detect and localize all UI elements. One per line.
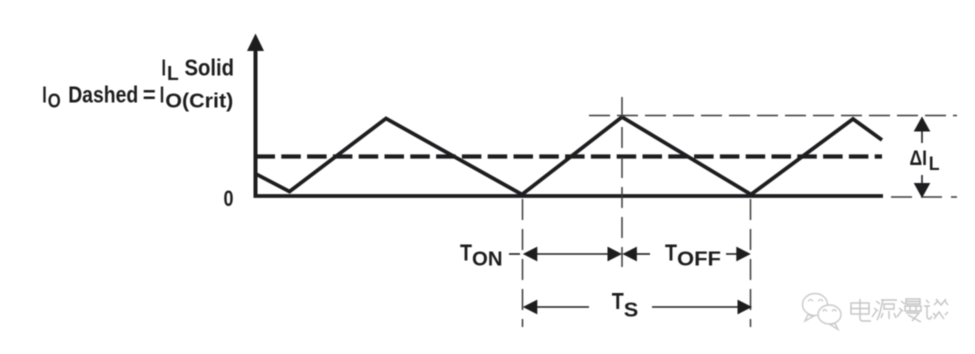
svg-text:S: S: [624, 299, 639, 322]
TON arrow (double headed between x=522 and x=622): [523, 247, 622, 262]
svg-text:I: I: [162, 55, 167, 81]
svg-text:I: I: [42, 82, 47, 108]
watermark text man (diffuse): [897, 299, 921, 322]
svg-text:T: T: [612, 288, 624, 314]
TS arrow left part: [523, 300, 589, 315]
zero level thin dashed extension right: [891, 196, 957, 198]
svg-text:L: L: [929, 154, 940, 175]
TOFF leader dash and right head: [726, 247, 751, 262]
vertical thin dashed at TON start (x=522): [522, 199, 524, 327]
TS arrow right part: [652, 300, 752, 315]
peak level thin dashed line: [589, 115, 957, 117]
watermark wechat icon big bubble eyes: [809, 300, 823, 302]
label TON: [460, 239, 503, 270]
svg-text:T: T: [460, 239, 472, 265]
delta IL dimension arrow: [914, 117, 931, 199]
svg-text:Solid: Solid: [185, 55, 235, 81]
watermark text tan (talk): [924, 299, 948, 319]
watermark wechat icon big bubble: [803, 294, 828, 322]
svg-text:I: I: [160, 82, 165, 108]
svg-text:L: L: [167, 62, 179, 85]
label IO Dashed = IO(Crit): [42, 82, 233, 113]
vertical thin dashed at peak / TON end (x=622): [621, 97, 623, 267]
svg-text:Dashed: Dashed: [68, 82, 138, 108]
svg-text:T: T: [665, 239, 677, 265]
watermark text dian (electric): [851, 299, 871, 321]
label TS: [612, 288, 639, 322]
svg-text:O: O: [48, 89, 61, 112]
vertical thin dashed at TOFF end (x=750.5): [750, 199, 752, 327]
label TOFF: [665, 239, 721, 270]
svg-text:ΔI: ΔI: [910, 147, 928, 170]
label delta IL: [910, 147, 940, 175]
TOFF arrow left head: [622, 247, 650, 262]
x-axis zero line: [254, 194, 884, 198]
svg-text:=: =: [143, 82, 156, 108]
svg-text:O(Crit): O(Crit): [165, 90, 233, 113]
svg-text:0: 0: [224, 186, 234, 211]
inductor current waveform (solid): [256, 117, 882, 195]
average current thick dashed line (IO(Crit)): [256, 154, 883, 158]
label IL Solid: [162, 55, 235, 86]
watermark text yuan (source): [872, 300, 897, 320]
svg-text:OFF: OFF: [677, 248, 721, 271]
watermark wechat icon small bubble: [818, 305, 841, 330]
TON leader dash: [509, 253, 520, 255]
y-axis: [247, 34, 264, 198]
watermark wechat icon small bubble eyes: [823, 310, 836, 312]
svg-text:ON: ON: [472, 248, 503, 271]
